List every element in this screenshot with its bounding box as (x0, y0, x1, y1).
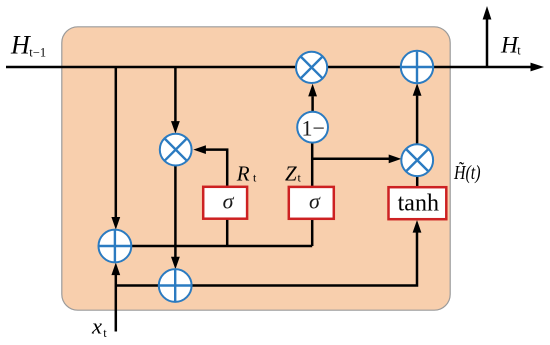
node: candidate multiply circle (401, 144, 433, 176)
svg-text:Z: Z (285, 161, 297, 185)
box: sigma R gate (203, 187, 247, 219)
wire: feed line from plus1 to sigma2 stem (131, 245, 312, 248)
wire: sigma1 stem below box (226, 220, 229, 247)
wire: sigma2 up to one-minus (311, 143, 314, 188)
svg-text:H̃(t): H̃(t) (453, 161, 480, 184)
node: reset multiply circle (160, 134, 192, 166)
wire: one-minus up to z-mult (311, 96, 314, 112)
wire: H(t-1) down to plus1 (115, 67, 118, 218)
wire: branch right into cand-mult (312, 157, 389, 160)
svg-text:R: R (236, 161, 250, 185)
svg-text:x: x (91, 314, 102, 339)
svg-text:σ: σ (309, 189, 321, 214)
wire: bottom xt branch to tanh (116, 233, 417, 286)
node: plus1 circle (H + x) (99, 230, 132, 263)
node: z multiply circle on H line (296, 52, 327, 83)
svg-text:σ: σ (223, 189, 235, 214)
box: tanh (389, 187, 447, 219)
wire: cand-mult up to plus-out (416, 96, 419, 145)
wire: sigma1 up and left into reset-mult (206, 150, 228, 187)
svg-text:t−1: t−1 (29, 45, 46, 59)
wire: sigma2 stem below box (311, 220, 314, 247)
wire: H line down to reset-mult (174, 67, 177, 122)
node: plus2 circle (rH + x) (159, 269, 192, 302)
wire: xt input up to plus1 (115, 275, 118, 332)
svg-text:1−: 1− (301, 115, 324, 140)
svg-text:t: t (103, 326, 107, 340)
wire: Ht output up arrow (486, 18, 489, 67)
node: one-minus circle (297, 112, 328, 143)
wire: main horizontal H line (6, 66, 531, 69)
svg-text:t: t (517, 44, 521, 58)
node: output plus circle on H line (401, 51, 433, 83)
wire: tanh top to cand-mult bottom (416, 176, 419, 187)
svg-text:tanh: tanh (398, 191, 439, 217)
svg-text:H: H (10, 31, 31, 60)
GRU cell body (62, 27, 450, 310)
box: sigma Z gate (289, 187, 334, 219)
wire: reset-mult down to plus2 (174, 166, 177, 257)
